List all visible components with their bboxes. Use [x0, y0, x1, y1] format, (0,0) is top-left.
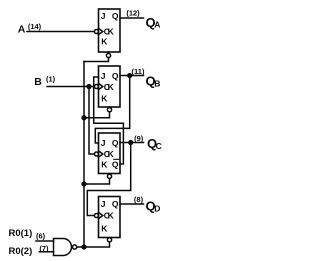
svg-text:(6): (6): [36, 232, 46, 241]
svg-text:B: B: [154, 79, 160, 89]
FF3 clear bubble: [109, 173, 111, 176]
svg-text:CK: CK: [104, 211, 115, 221]
CK bubble FF3: [94, 152, 98, 156]
FF3 clock edge wedge: [99, 151, 103, 157]
CK bubble FF2: [94, 85, 98, 89]
wire QC output: [120, 142, 144, 144]
wire Q-bar of FF3 to J of FF2: [94, 77, 124, 164]
node QA label: [146, 15, 161, 30]
FF4 pin labels: [101, 199, 119, 234]
pin 1 label: [46, 75, 56, 84]
svg-text:K: K: [101, 224, 108, 234]
NAND gate reset: [54, 239, 72, 256]
pin 7 label: [39, 244, 49, 253]
svg-text:Q: Q: [112, 138, 119, 148]
wire QD output: [120, 203, 144, 205]
svg-text:C: C: [156, 141, 162, 151]
node QB label: [146, 74, 161, 89]
FF2 clock edge wedge: [99, 83, 103, 89]
flip-flop FF1 (QA) box: [99, 9, 121, 52]
svg-text:B: B: [34, 76, 42, 88]
flip-flop FF4 (QD) box: [99, 197, 121, 238]
wire FF1 clear to reset rail: [84, 58, 109, 62]
wire B down to CK of FF3: [89, 87, 94, 155]
svg-text:J: J: [101, 138, 106, 148]
svg-text:(9): (9): [134, 134, 144, 143]
wire R0(2) to NAND input: [39, 251, 53, 253]
FF1 clear bubble: [108, 52, 110, 53]
node QC label: [147, 136, 162, 151]
svg-text:(11): (11): [132, 67, 145, 76]
CK bubble FF4: [94, 214, 98, 218]
svg-text:K: K: [101, 37, 108, 47]
svg-text:J: J: [101, 11, 106, 21]
svg-text:(8): (8): [134, 195, 144, 204]
wire B to CK of FF2: [47, 86, 94, 88]
wire QB output: [120, 75, 144, 77]
junction reset rail FF2: [82, 116, 86, 120]
junction QC branch: [129, 141, 133, 145]
junction reset rail NAND output: [82, 245, 86, 249]
svg-text:D: D: [154, 204, 160, 214]
pin 14 label: [28, 22, 42, 31]
FF1 clock edge wedge: [99, 28, 103, 34]
FF3 Q-bar overbar: [114, 158, 119, 160]
junction B clock branch: [87, 85, 91, 89]
svg-text:J: J: [101, 199, 106, 209]
node QD label: [146, 199, 161, 214]
node A input label: [18, 24, 26, 36]
svg-text:Q: Q: [112, 71, 119, 81]
wire FF3 clear to reset rail: [84, 178, 110, 184]
wire A to CK of FF1: [27, 31, 94, 33]
svg-text:(12): (12): [126, 9, 140, 18]
wire reset rail: [83, 62, 85, 248]
svg-text:Q: Q: [112, 199, 119, 209]
wire QA output: [120, 17, 144, 19]
pin 8 label: [134, 195, 144, 204]
svg-text:Q: Q: [112, 11, 119, 21]
wire QB to J of FF3: [95, 76, 129, 144]
FF4 clock edge wedge: [99, 212, 103, 218]
FF4 clear bubble: [109, 237, 111, 239]
CK bubble FF1: [94, 30, 98, 34]
svg-text:Q: Q: [112, 159, 119, 169]
pin 6 label: [36, 232, 46, 241]
svg-text:J: J: [101, 71, 106, 81]
svg-text:K: K: [101, 94, 108, 104]
svg-text:K: K: [101, 159, 108, 169]
svg-text:(1): (1): [46, 75, 56, 84]
node R0(1) input label: [9, 228, 33, 239]
svg-text:R0(2): R0(2): [9, 246, 33, 257]
svg-text:CK: CK: [104, 149, 115, 159]
junction QB branch: [128, 74, 132, 78]
node B input label: [34, 76, 42, 88]
FF2 pin labels: [101, 71, 119, 104]
pin 11 label: [132, 67, 145, 76]
FF1 pin labels: [101, 11, 119, 47]
FF3 pin labels: [101, 138, 119, 170]
svg-text:R0(1): R0(1): [9, 228, 33, 239]
pin 12 label: [126, 9, 140, 18]
FF2 clear bubble: [109, 106, 111, 109]
flip-flop FF3 (QC) box: [99, 133, 121, 174]
svg-text:CK: CK: [104, 82, 115, 92]
node R0(2) input label: [9, 246, 33, 257]
junction reset rail FF3: [82, 182, 86, 186]
wire NAND output to FF4 clear and reset rail: [77, 242, 110, 247]
wire R0(1) to NAND input: [36, 240, 54, 242]
svg-text:A: A: [154, 20, 160, 30]
svg-text:(14): (14): [28, 22, 42, 31]
flip-flop FF2 (QB) box: [99, 66, 121, 107]
pin 9 label: [134, 134, 144, 143]
wire FF2 clear to reset rail: [84, 112, 110, 118]
NAND output bubble: [73, 245, 77, 249]
svg-text:CK: CK: [104, 27, 115, 37]
svg-text:A: A: [18, 24, 26, 36]
wire QC to CK of FF4: [87, 143, 130, 216]
